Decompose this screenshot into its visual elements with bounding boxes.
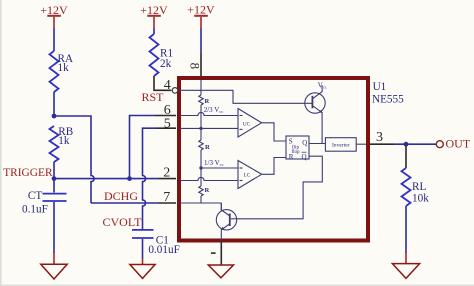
svg-text:R: R bbox=[289, 153, 294, 161]
node OUT junction bbox=[404, 142, 409, 147]
resistor RB 1k bbox=[50, 126, 74, 162]
wire divider upper to 2/3 node bbox=[200, 105, 202, 140]
svg-text:CVOLT: CVOLT bbox=[103, 215, 143, 229]
svg-text:1k: 1k bbox=[58, 135, 70, 147]
power +12V rail 3 (pin 8) bbox=[187, 3, 215, 29]
svg-text:3: 3 bbox=[376, 130, 383, 145]
wire UC output to FF S input bbox=[262, 123, 286, 141]
comparator UC bbox=[238, 109, 262, 138]
pin 6 stub bbox=[155, 115, 176, 117]
node 1/3 Vcc junction bbox=[199, 166, 202, 169]
wire DCHG to pin 7 bbox=[91, 202, 158, 204]
wire pin 3 to OUT terminal bbox=[395, 143, 437, 145]
chip designator U1 NE555 bbox=[372, 81, 404, 106]
svg-text:4: 4 bbox=[164, 78, 171, 93]
comparator LC bbox=[238, 161, 262, 189]
resistor RL 10k bbox=[402, 168, 430, 206]
internal resistor R upper bbox=[199, 95, 210, 105]
wire FF Qbar to Q2 base bbox=[231, 156, 322, 219]
svg-text:TRIGGER: TRIGGER bbox=[3, 167, 53, 179]
internal resistor R lower bbox=[199, 186, 210, 196]
wire pin 7 internal to Q2 collector bbox=[180, 203, 221, 210]
svg-text:R: R bbox=[205, 187, 210, 194]
svg-text:RST: RST bbox=[142, 90, 165, 104]
wire RST internal to Q1 base bbox=[180, 90, 312, 103]
wire CT to ground bbox=[53, 202, 55, 253]
svg-text:U1: U1 bbox=[373, 81, 387, 93]
ground under C1 bbox=[130, 258, 155, 278]
wire TRIGGER node to CT bbox=[53, 179, 55, 193]
resistor RA 1k bbox=[50, 51, 74, 92]
wire pin 6 internal to UC + input (hops divider) bbox=[180, 112, 238, 115]
capacitor CT 0.1uF bbox=[22, 190, 67, 215]
flip-flop bbox=[286, 136, 309, 161]
svg-text:OUT: OUT bbox=[446, 137, 471, 151]
ground under RL bbox=[392, 252, 419, 278]
svg-text:CT: CT bbox=[28, 190, 42, 202]
pin label 1 (rotated, appears as dash) bbox=[211, 252, 216, 254]
pin 2 stub bbox=[158, 178, 176, 180]
svg-text:0.1uF: 0.1uF bbox=[22, 204, 48, 216]
svg-text:Q: Q bbox=[302, 153, 307, 161]
svg-text:RL: RL bbox=[412, 181, 426, 193]
wire R1 to RST pin 4 bbox=[154, 76, 171, 90]
svg-text:R: R bbox=[205, 144, 210, 151]
wire +12V to R1 bbox=[153, 28, 155, 34]
wire TRIGGER to pin 2 bbox=[54, 178, 158, 180]
terminal OUT bubble bbox=[436, 141, 443, 148]
wire +12V to pin 8 bbox=[200, 28, 202, 53]
node TRIGGER junction bbox=[52, 176, 57, 181]
wire pin 8 internal to divider bbox=[200, 80, 202, 95]
node 2/3 Vcc junction bbox=[199, 127, 202, 130]
wire LC output to FF R input bbox=[262, 158, 286, 175]
wire RA to node A bbox=[53, 92, 55, 116]
pin 7 stub bbox=[158, 202, 176, 204]
svg-text:S: S bbox=[289, 138, 293, 146]
wire C1 to ground bbox=[142, 239, 144, 259]
wire divider mid bbox=[200, 150, 202, 186]
junction pin 6 tie to TRIGGER bbox=[127, 176, 132, 181]
svg-text:2: 2 bbox=[163, 166, 170, 181]
internal resistor R middle bbox=[199, 140, 210, 151]
svg-text:Q: Q bbox=[302, 139, 307, 147]
svg-text:R: R bbox=[205, 98, 210, 105]
wire divider bottom to pin 7 line bbox=[200, 196, 202, 203]
transistor Q1 (reset to Vcc) bbox=[305, 85, 325, 143]
svg-text:LC: LC bbox=[244, 173, 251, 179]
wire node A to DCHG (hops TRIGGER) bbox=[54, 116, 94, 203]
pin 3 stub bbox=[370, 143, 395, 145]
wire pin 2 internal to LC - input (hops divider) bbox=[180, 177, 238, 180]
svg-text:DCHG: DCHG bbox=[104, 189, 138, 203]
svg-text:UC: UC bbox=[243, 121, 251, 127]
ground chip pin 1 bbox=[208, 265, 233, 278]
svg-text:10k: 10k bbox=[412, 193, 429, 205]
wire Q2 emitter to ground pin 1 bbox=[220, 241, 222, 265]
pin 8 stub bbox=[200, 53, 202, 76]
wire RL to ground bbox=[405, 206, 407, 253]
svg-text:0.01uF: 0.01uF bbox=[148, 244, 179, 256]
transistor Q2 discharge bbox=[216, 203, 236, 243]
capacitor C1 0.01uF bbox=[132, 230, 180, 256]
resistor R1 2k bbox=[150, 34, 174, 76]
ground under CT bbox=[41, 252, 67, 279]
wire 1/3 Vcc to LC + input bbox=[201, 167, 238, 169]
wire pin 5 internal / control to UC - input bbox=[180, 127, 238, 129]
power +12V rail 2 bbox=[140, 3, 168, 28]
pin 5 stub bbox=[157, 127, 176, 129]
wire OUT node to RL bbox=[405, 146, 407, 168]
pin 4 bubble bbox=[172, 88, 178, 94]
wire pin 6 to TRIGGER junction bbox=[130, 116, 156, 179]
chip U1 NE555 body bbox=[179, 78, 368, 241]
wire pin 5 to C1 CVOLT (hops TRIGGER and DCHG) bbox=[143, 128, 158, 229]
svg-text:2k: 2k bbox=[160, 58, 172, 70]
svg-text:+12V: +12V bbox=[187, 3, 215, 17]
svg-text:7: 7 bbox=[163, 190, 170, 205]
wire RB to TRIGGER node bbox=[53, 162, 55, 179]
svg-text:1k: 1k bbox=[58, 62, 70, 74]
svg-text:Inverter: Inverter bbox=[332, 142, 350, 148]
svg-text:5: 5 bbox=[164, 116, 171, 131]
power +12V rail 1 bbox=[40, 3, 68, 28]
inverter block bbox=[325, 138, 356, 152]
svg-text:NE555: NE555 bbox=[372, 94, 404, 106]
svg-text:8: 8 bbox=[187, 63, 202, 70]
wire +12V to RA bbox=[53, 28, 55, 51]
wire inverter to pin 3 bbox=[356, 143, 366, 145]
wire FF Q to inverter bbox=[309, 143, 325, 145]
node A junction bbox=[52, 114, 57, 119]
